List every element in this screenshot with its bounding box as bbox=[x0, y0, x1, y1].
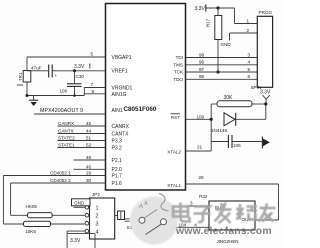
svg-text:7: 7 bbox=[91, 82, 94, 87]
svg-text:STATE1: STATE1 bbox=[58, 143, 75, 148]
svg-text:3.3V: 3.3V bbox=[74, 64, 85, 70]
svg-text:28: 28 bbox=[199, 175, 205, 180]
svg-text:CD4052 2: CD4052 2 bbox=[50, 178, 71, 183]
svg-text:P3.2: P3.2 bbox=[112, 145, 123, 151]
svg-text:3.3V: 3.3V bbox=[195, 6, 206, 12]
svg-text:JINGZHEN: JINGZHEN bbox=[217, 239, 239, 244]
svg-text:VRGND1: VRGND1 bbox=[112, 85, 133, 91]
svg-text:3: 3 bbox=[96, 222, 99, 228]
svg-text:6: 6 bbox=[248, 74, 251, 79]
svg-text:44: 44 bbox=[86, 129, 92, 134]
svg-text:MPX4200AOUT 9: MPX4200AOUT 9 bbox=[40, 108, 83, 114]
svg-text:3: 3 bbox=[248, 52, 251, 57]
svg-text:4: 4 bbox=[248, 60, 251, 65]
svg-text:TCK: TCK bbox=[174, 70, 184, 75]
svg-text:TR1: TR1 bbox=[18, 72, 23, 81]
svg-text:C30: C30 bbox=[76, 74, 85, 79]
svg-text:TMS: TMS bbox=[173, 63, 183, 68]
svg-text:106: 106 bbox=[233, 143, 241, 148]
svg-text:47uF: 47uF bbox=[31, 66, 42, 71]
svg-text:AIN1G: AIN1G bbox=[112, 92, 127, 98]
svg-text:P1.7: P1.7 bbox=[112, 173, 123, 179]
svg-text:HK06: HK06 bbox=[26, 204, 38, 209]
svg-text:51: 51 bbox=[86, 136, 92, 141]
svg-text:PROG: PROG bbox=[259, 10, 273, 15]
svg-text:8: 8 bbox=[92, 89, 95, 94]
svg-text:10K6: 10K6 bbox=[25, 229, 36, 234]
svg-text:45: 45 bbox=[86, 121, 92, 126]
svg-text:45: 45 bbox=[86, 155, 92, 160]
svg-text:2: 2 bbox=[96, 214, 99, 220]
svg-text:52: 52 bbox=[86, 143, 92, 148]
svg-text:3.3V: 3.3V bbox=[260, 90, 271, 96]
svg-text:VBGAP1: VBGAP1 bbox=[112, 55, 132, 61]
svg-text:P3.3: P3.3 bbox=[112, 138, 123, 144]
svg-text:6PIN: 6PIN bbox=[251, 85, 261, 90]
svg-text:5: 5 bbox=[91, 52, 94, 57]
svg-text:5: 5 bbox=[248, 67, 251, 72]
svg-text:CANRX: CANRX bbox=[58, 121, 74, 126]
svg-text:30: 30 bbox=[86, 178, 92, 183]
svg-text:1: 1 bbox=[96, 206, 99, 212]
svg-text:www.elecfans.com: www.elecfans.com bbox=[175, 226, 272, 237]
svg-text:TDO: TDO bbox=[173, 77, 183, 82]
svg-text:P2.0: P2.0 bbox=[112, 167, 123, 173]
svg-text:+: + bbox=[55, 73, 58, 78]
svg-text:C8051F060: C8051F060 bbox=[124, 106, 157, 113]
svg-text:STATE2: STATE2 bbox=[58, 136, 75, 141]
svg-text:VREF1: VREF1 bbox=[112, 69, 128, 75]
svg-text:21: 21 bbox=[197, 145, 203, 150]
svg-text:3.3V: 3.3V bbox=[70, 238, 81, 244]
svg-text:CANTX: CANTX bbox=[112, 131, 130, 137]
svg-text:GND: GND bbox=[221, 42, 232, 47]
svg-text:1N4148: 1N4148 bbox=[211, 128, 228, 133]
svg-text:XTAL1: XTAL1 bbox=[167, 183, 181, 188]
svg-text:100: 100 bbox=[60, 89, 68, 94]
svg-text:CD4052 1: CD4052 1 bbox=[50, 170, 71, 175]
svg-text:97: 97 bbox=[199, 67, 205, 72]
svg-text:30K: 30K bbox=[224, 95, 234, 101]
svg-text:95: 95 bbox=[199, 74, 205, 79]
svg-text:P1.6: P1.6 bbox=[112, 181, 123, 187]
svg-text:CANTX: CANTX bbox=[58, 129, 74, 134]
svg-text:AIN1: AIN1 bbox=[112, 108, 123, 114]
svg-text:R17: R17 bbox=[206, 18, 211, 27]
svg-text:P2.1: P2.1 bbox=[112, 158, 123, 164]
svg-text:JP2: JP2 bbox=[92, 192, 100, 197]
svg-text:46: 46 bbox=[86, 164, 92, 169]
svg-text:GND: GND bbox=[74, 201, 85, 206]
svg-text:29: 29 bbox=[86, 170, 92, 175]
svg-text:96: 96 bbox=[199, 60, 205, 65]
svg-text:98: 98 bbox=[199, 52, 205, 57]
svg-text:1: 1 bbox=[247, 18, 250, 23]
svg-text:100: 100 bbox=[197, 114, 205, 119]
svg-text:3: 3 bbox=[190, 200, 193, 205]
svg-text:2: 2 bbox=[247, 28, 250, 33]
svg-text:TDI: TDI bbox=[176, 55, 183, 60]
svg-text:R32: R32 bbox=[199, 194, 208, 199]
svg-text:RST: RST bbox=[171, 115, 180, 120]
svg-text:XTAL2: XTAL2 bbox=[167, 149, 181, 154]
svg-text:CANRX: CANRX bbox=[112, 124, 130, 130]
svg-text:4: 4 bbox=[96, 230, 99, 236]
